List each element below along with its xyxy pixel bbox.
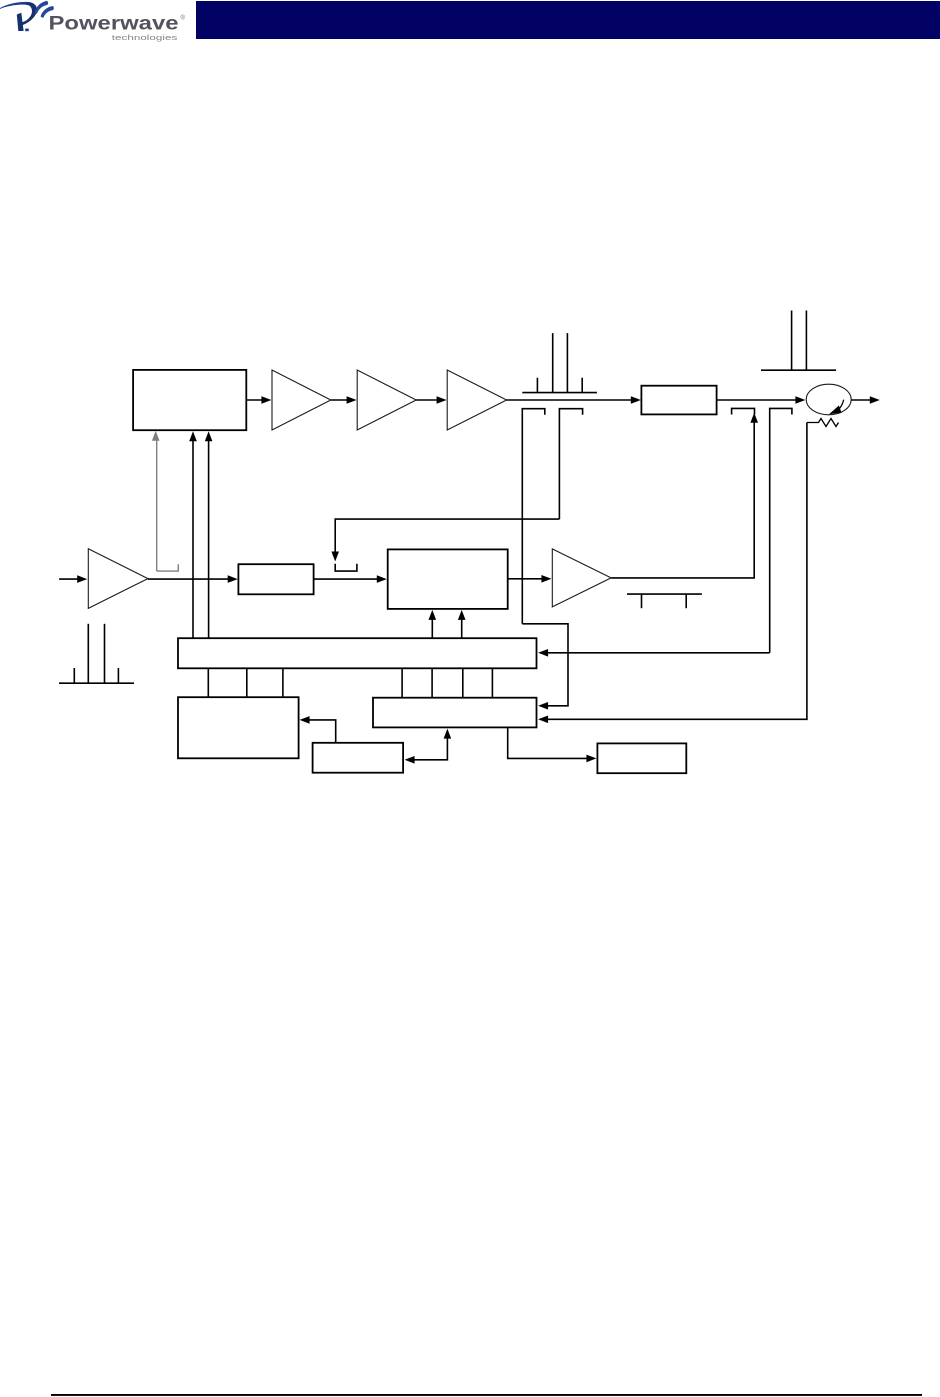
detector wire to dsp box [538, 423, 807, 724]
bus to dsp connector 1 [401, 668, 403, 697]
svg-text:®: ® [181, 15, 186, 22]
input sample coupler (grey) [157, 564, 179, 571]
coupler CP1 coupled line b [559, 409, 582, 519]
processor box [178, 697, 299, 758]
wire memory to processor [300, 716, 336, 743]
error amplifier [552, 549, 611, 607]
logo swoosh band [0, 2, 36, 9]
bus to processor connector 2 [246, 668, 248, 697]
detector resistor [807, 419, 839, 427]
bus control wire 2 to adjuster box [205, 431, 213, 638]
error injection wire to coupler CP2 [611, 413, 758, 578]
wire dsp to adc [508, 727, 597, 762]
error spectrum symbol [627, 594, 702, 608]
vector modulator box [388, 549, 508, 609]
bus to dsp connector 2 [431, 668, 433, 697]
bus control wire 1 to adjuster box [189, 431, 197, 638]
bus to dsp connector 3 [462, 668, 464, 697]
amplifier A3 [447, 370, 506, 430]
input spectrum symbol [59, 624, 134, 683]
coupler CP1 coupled line a [522, 409, 545, 624]
logo P stem [17, 13, 24, 31]
wire vector modulator to error amplifier [508, 575, 552, 583]
amplifier A1 [272, 370, 331, 430]
carrier sample path CP1 to cancellation coupler [331, 519, 559, 561]
coupler CP2 coupled line a [732, 408, 755, 414]
output spectrum symbol [761, 311, 836, 371]
footer rule [51, 1394, 922, 1396]
main line filter to attenuator [717, 396, 806, 404]
box gain/phase adjuster (top-left module) [133, 370, 246, 430]
feedback wire CP2 to controller bus [538, 649, 770, 657]
sample wire CP1 to dsp box [522, 624, 568, 710]
bidirectional wire memory and dsp [405, 729, 452, 764]
wire delay box to vector modulator [314, 575, 387, 583]
coupler CP2 coupled line b [770, 408, 792, 652]
input amplifier [88, 549, 148, 609]
variable attenuator arrow [829, 400, 844, 415]
svg-text:Powerwave: Powerwave [49, 13, 179, 35]
main line A3 to bandpass filter [507, 396, 641, 404]
bus to processor connector 3 [282, 668, 284, 697]
adc box [597, 743, 686, 773]
input sample wire to adjuster box (grey) [152, 431, 160, 571]
spectrum symbol above coupler CP1 [522, 333, 597, 393]
controller bus box [178, 638, 537, 668]
bandpass filter box [641, 386, 716, 415]
svg-text:technologies: technologies [112, 33, 178, 42]
logo echo arc 2 [41, 6, 54, 18]
wire A1 to A2 [331, 396, 357, 404]
output wire [851, 396, 880, 404]
logo P dot [25, 29, 29, 32]
bus to processor connector 1 [207, 668, 209, 697]
memory box [313, 743, 404, 773]
wire input amp to delay box [148, 575, 238, 583]
input wire [59, 575, 87, 583]
delay box [238, 564, 313, 594]
amplifier A2 [357, 370, 416, 430]
bus control wire 1 to vector modulator [429, 610, 437, 639]
logo swoosh head and P bowl [20, 2, 37, 26]
bus to dsp connector 4 [491, 668, 493, 697]
wire box to amplifier A1 [246, 396, 271, 404]
header navy bar [196, 1, 940, 39]
variable attenuator circle [806, 384, 851, 415]
wire A2 to A3 [416, 396, 446, 404]
logo echo arc 1 [35, 1, 49, 14]
bus control wire 2 to vector modulator [458, 610, 466, 639]
cancellation coupler bracket [335, 564, 357, 571]
dsp box [373, 698, 537, 728]
